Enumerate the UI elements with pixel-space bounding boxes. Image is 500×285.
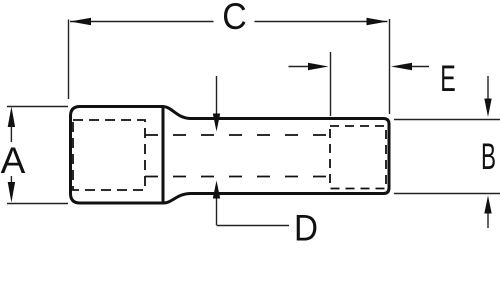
svg-text:E: E bbox=[440, 58, 456, 99]
dimension B : extension lines bbox=[394, 120, 500, 194]
dimension B : top arrow bbox=[487, 76, 489, 99]
dimension A : extension lines bbox=[7, 107, 68, 204]
dimension E : extension line bbox=[330, 52, 332, 116]
head face line bbox=[162, 107, 165, 204]
part outline: socket adapter body bbox=[71, 107, 390, 204]
hidden square drive hole in head (dashed) bbox=[73, 120, 145, 190]
dimension D : top arrow bbox=[216, 76, 218, 114]
svg-text:B: B bbox=[481, 136, 496, 177]
dimension A : top arrow bbox=[10, 127, 12, 142]
dimension B : bottom arrow bbox=[487, 214, 489, 229]
dimension D : leader line bbox=[217, 225, 290, 227]
dimension D : bottom arrow bbox=[216, 199, 218, 226]
hidden bore bottom line bbox=[145, 176, 330, 178]
dimension C : extension line left bbox=[68, 20, 70, 100]
svg-text:D: D bbox=[294, 208, 318, 249]
dimension C : line bbox=[70, 21, 388, 23]
dimension C : right arrowhead bbox=[367, 18, 388, 25]
hidden bore top line bbox=[145, 134, 330, 136]
dimension E : right arrow bbox=[412, 66, 429, 68]
dimension A : bottom arrow bbox=[10, 176, 12, 182]
svg-text:A: A bbox=[1, 140, 26, 181]
dimension C/E : extension line right bbox=[389, 19, 391, 114]
dimension C : left arrowhead bbox=[70, 18, 91, 25]
dimension E : left arrow bbox=[289, 66, 309, 68]
hidden hole at right end (dashed) bbox=[330, 126, 386, 189]
svg-text:C: C bbox=[222, 0, 247, 37]
